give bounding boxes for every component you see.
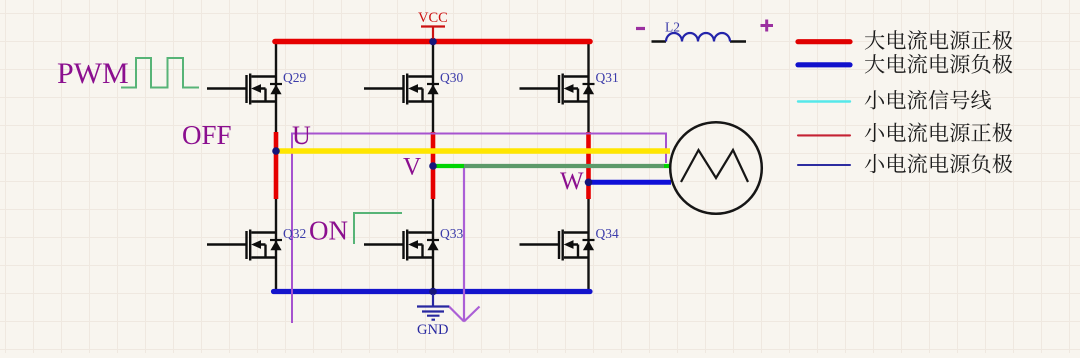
wire: Q29 drain column [275,42,277,134]
node W junction [585,179,593,187]
svg-text:Q33: Q33 [440,226,463,241]
node U junction [272,147,280,155]
wire V phase muted green [464,164,664,168]
svg-text:Q29: Q29 [283,70,306,85]
svg-text:OFF: OFF [182,120,232,150]
minus sign [636,27,645,30]
wire W phase (blue) [589,180,672,185]
wire U phase (yellow) [276,148,670,154]
motor M1 circle [670,122,762,214]
plus sign [761,20,774,32]
svg-text:V: V [403,154,421,181]
svg-text:Q34: Q34 [596,226,619,241]
legend line 5 [798,164,850,166]
legend line 2 [798,62,850,67]
svg-text:Q31: Q31 [596,70,619,85]
transistor Q30 [364,74,439,105]
wire: Q32 column lower [275,199,277,292]
transistor Q34 [520,230,595,261]
svg-text:Q30: Q30 [440,70,463,85]
svg-text:PWM: PWM [57,57,129,90]
motor zigzag [681,150,748,182]
purple probe arrow [449,166,480,322]
svg-text:VCC: VCC [418,10,448,26]
transistor Q31 [520,74,595,105]
svg-text:U: U [292,121,311,150]
node VCC junction [429,38,437,46]
legend text 4: 小电流电源正极 [865,123,1013,143]
wire V phase bright green [433,164,464,168]
legend line 1 [798,39,850,44]
ground GND [417,294,449,320]
svg-text:GND: GND [417,322,448,338]
svg-text:Q32: Q32 [283,226,306,241]
wire: Q31 drain column [587,42,589,134]
legend text 5: 小电流电源负极 [865,154,1013,174]
node V junction [429,162,437,170]
wire: Q30 drain column [432,42,434,134]
GND power rail (thick blue) [274,289,591,294]
inductor L2 leads [652,40,747,42]
red wire segment V column [431,132,436,199]
legend line 3 [798,100,850,102]
purple probe path U loop [292,134,666,324]
power symbol VCC [421,27,445,39]
ON step waveform [354,213,402,244]
legend text 2: 大电流电源负极 [865,54,1013,74]
inductor L2 coil [666,33,730,42]
red wire segment W column [586,132,591,199]
legend text 3: 小电流信号线 [865,90,991,110]
legend text 1: 大电流电源正极 [865,30,1013,50]
red wire segment U column [274,132,279,199]
svg-text:L2: L2 [665,20,680,35]
svg-text:W: W [560,168,584,195]
wire V phase tip green [664,164,671,168]
svg-text:ON: ON [309,216,348,246]
PWM waveform [121,58,199,88]
transistor Q33 [364,230,439,261]
wire: Q33 column lower [432,199,434,292]
node GND junction [429,288,437,296]
wire: Q34 column lower [587,199,589,292]
VCC power rail (thick red) [275,39,590,45]
transistor Q32 [207,230,282,261]
transistor Q29 [207,74,282,105]
legend line 4 [798,134,850,136]
